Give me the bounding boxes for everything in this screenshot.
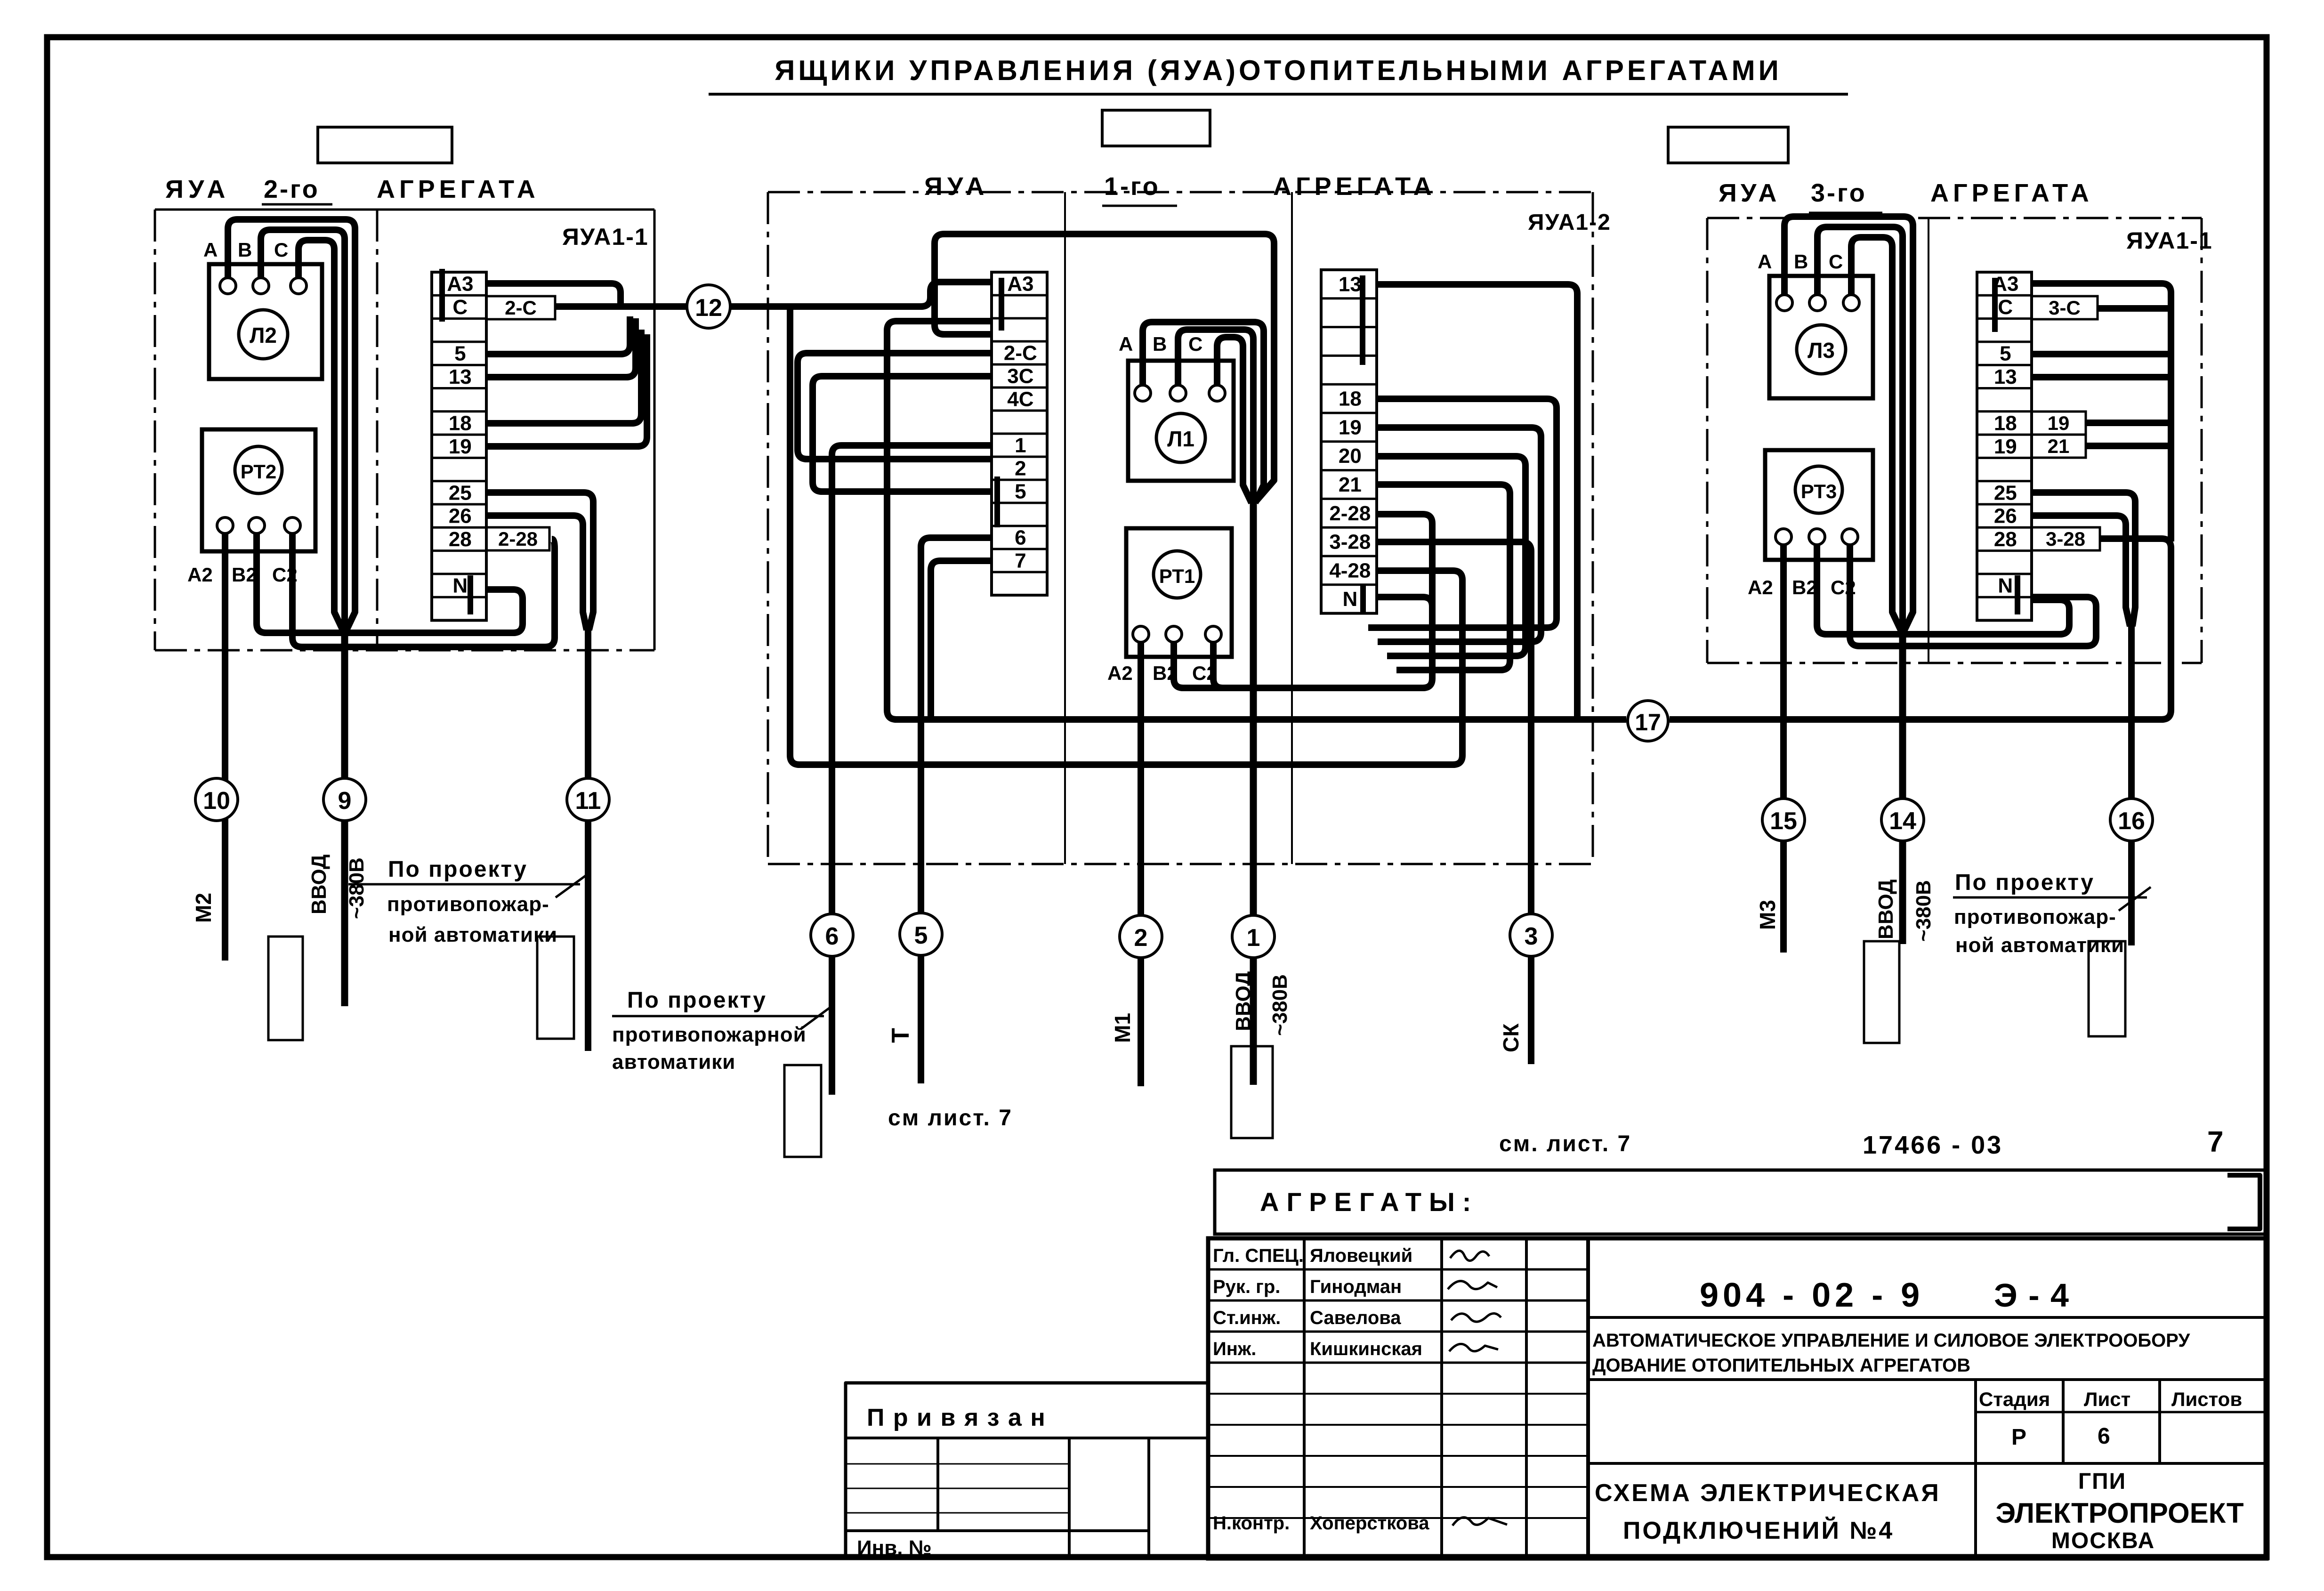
wire row 18 to riser bundle	[487, 330, 641, 423]
middle-right terminal strip YAUA1-2	[1321, 270, 1377, 614]
svg-text:А: А	[1119, 333, 1133, 355]
svg-text:17: 17	[1635, 709, 1661, 735]
svg-text:С: С	[1829, 250, 1843, 273]
svg-text:3-28: 3-28	[1329, 531, 1371, 554]
wire phase A of A1 to feeder cable 1	[1143, 322, 1264, 503]
cable 6 wire from row 1 down	[832, 445, 992, 1095]
svg-text:В: В	[1153, 333, 1167, 355]
svg-text:М3: М3	[1755, 900, 1780, 930]
right strip tick at A3	[1992, 278, 1998, 332]
cable marker circle 11	[567, 778, 609, 821]
svg-text:28: 28	[1994, 528, 2017, 551]
RT1 terminal A2	[1133, 626, 1149, 642]
cable marker circle 17	[1628, 701, 1668, 741]
wire RT1 B2 along bottom to riser of 2-28 row	[1174, 514, 1432, 688]
svg-text:В: В	[238, 239, 252, 261]
destination box for cable 14	[1864, 941, 1899, 1043]
cable marker circle 3	[1510, 914, 1552, 956]
svg-text:автоматики: автоматики	[612, 1050, 735, 1074]
left strip jumper tick at A3	[439, 269, 445, 322]
svg-text:ДОВАНИЕ ОТОПИТЕЛЬНЫХ АГРЕГАТО: ДОВАНИЕ ОТОПИТЕЛЬНЫХ АГРЕГАТОВ	[1592, 1355, 1970, 1376]
svg-text:ГПИ: ГПИ	[2078, 1469, 2126, 1494]
svg-text:13: 13	[1994, 365, 2017, 388]
svg-text:7: 7	[2207, 1126, 2223, 1158]
svg-text:Кишкинская: Кишкинская	[1310, 1339, 1422, 1359]
svg-text:противопожар-: противопожар-	[387, 893, 549, 916]
attached tag box 3-C	[2032, 296, 2098, 319]
L3 terminal B	[1809, 295, 1825, 311]
cable marker circle 9	[323, 778, 366, 821]
right terminal strip YAUA1-1 of unit 3	[1977, 272, 2032, 621]
cable marker circle 14	[1881, 799, 1924, 841]
attached tag box 19	[2032, 412, 2086, 435]
svg-text:11: 11	[575, 787, 601, 815]
AGREGATY box right bracket	[2227, 1175, 2260, 1229]
svg-text:10: 10	[203, 787, 230, 815]
svg-text:13: 13	[449, 365, 472, 388]
middle unit internal divider right	[1291, 192, 1293, 864]
svg-text:4С: 4С	[1007, 388, 1033, 411]
svg-text:ЯУА: ЯУА	[924, 172, 989, 201]
svg-text:5: 5	[914, 922, 928, 949]
svg-text:Р: Р	[2011, 1425, 2026, 1450]
svg-text:П р и в я з а н: П р и в я з а н	[867, 1404, 1046, 1431]
contactor L3 box	[1769, 276, 1873, 398]
svg-text:17466 - 03: 17466 - 03	[1863, 1131, 2003, 1159]
svg-text:2: 2	[1134, 924, 1148, 952]
svg-text:7: 7	[1015, 549, 1026, 573]
svg-text:АГРЕГАТА: АГРЕГАТА	[377, 175, 540, 203]
wire phase A from L2 up to feeder bundle	[228, 219, 355, 630]
svg-text:Хоперсткова: Хоперсткова	[1310, 1513, 1429, 1534]
wire row 13 of right strip to riser	[2033, 374, 2171, 380]
svg-text:СК: СК	[1499, 1023, 1523, 1052]
svg-text:ВВОД: ВВОД	[1874, 880, 1897, 939]
svg-text:3-28: 3-28	[2046, 528, 2085, 550]
svg-text:Инж.: Инж.	[1213, 1339, 1256, 1359]
svg-text:28: 28	[449, 528, 472, 551]
wire row 13 down to wire 17 junction	[1377, 284, 1577, 719]
svg-text:Ст.инж.: Ст.инж.	[1213, 1308, 1281, 1328]
wire RT1 C2 joining same bottom run	[1213, 642, 1243, 688]
svg-text:3-го: 3-го	[1811, 179, 1867, 207]
left header underline under 2-го	[262, 203, 332, 206]
cable 2 wire M1 from RT1 A2 down	[1138, 642, 1144, 1086]
middle-left strip tick at row 5	[994, 476, 1000, 527]
middle-right strip tick at 13	[1360, 275, 1365, 365]
wire row 26 to cable 11	[487, 516, 587, 630]
svg-text:АГРЕГАТА: АГРЕГАТА	[1930, 179, 2093, 207]
svg-text:ЯУА: ЯУА	[165, 175, 230, 203]
svg-text:ной автоматики: ной автоматики	[1955, 934, 2124, 957]
destination box for cable 1	[1231, 1046, 1273, 1138]
svg-text:ЯУА1-1: ЯУА1-1	[562, 224, 649, 250]
svg-text:С: С	[1998, 296, 2013, 319]
svg-text:3: 3	[1525, 923, 1538, 950]
svg-text:~380В: ~380В	[1912, 880, 1935, 942]
svg-text:ВВОД: ВВОД	[307, 855, 331, 914]
RT3 terminal C2	[1842, 529, 1858, 545]
svg-text:Лист: Лист	[2084, 1388, 2130, 1410]
svg-text:25: 25	[1994, 481, 2017, 504]
A1 terminal C	[1209, 385, 1225, 401]
wire row 26 of right strip to cable 16	[2033, 516, 2130, 626]
svg-text:1-го: 1-го	[1104, 172, 1160, 201]
wire row 5 of right strip to riser	[2033, 351, 2171, 357]
svg-text:16: 16	[2118, 808, 2145, 835]
middle-left terminal strip	[992, 272, 1047, 595]
svg-text:По проекту: По проекту	[388, 857, 528, 882]
RT1 designator circle	[1154, 551, 1201, 598]
wire row 7 short riser	[931, 561, 992, 719]
svg-text:А3: А3	[1007, 273, 1033, 296]
middle-right strip tick at N	[1360, 584, 1366, 612]
cable 15 wire M3 from RT3 A2 down	[1780, 545, 1787, 953]
svg-text:4-28: 4-28	[1329, 559, 1371, 582]
svg-text:2-28: 2-28	[498, 528, 538, 550]
RT1 terminal C2	[1205, 626, 1221, 642]
svg-text:19: 19	[1339, 416, 1362, 439]
svg-text:Л2: Л2	[250, 323, 277, 347]
empty cartouche rectangle above middle header	[1102, 110, 1210, 146]
svg-text:противопожар-: противопожар-	[1954, 905, 2116, 929]
destination box for cable 11	[537, 937, 574, 1039]
svg-text:ЯУА1-2: ЯУА1-2	[1528, 210, 1611, 235]
A1 designator circle	[1156, 413, 1205, 462]
left terminal strip YAUA1-1	[432, 272, 486, 621]
svg-text:РТ1: РТ1	[1159, 565, 1195, 587]
svg-text:26: 26	[449, 505, 472, 528]
wire 3-C tag to main riser	[2098, 305, 2171, 312]
middle unit dash-dot enclosure YAUA 1-go agregata	[768, 192, 1593, 864]
wire A3 row of right strip to main riser	[2033, 283, 2171, 307]
svg-text:МОСКВА: МОСКВА	[2051, 1528, 2155, 1553]
wire row 20 J-path under strip	[1377, 456, 1525, 656]
svg-text:см. лист. 7: см. лист. 7	[1499, 1131, 1631, 1156]
line under project number	[1588, 1316, 2267, 1319]
loop wire 3C row to row 5 of middle strip	[813, 376, 992, 492]
cable marker circle 15	[1762, 799, 1805, 841]
cable 3 continuation down	[1528, 923, 1534, 1064]
cable 5 wire from row 6 down	[921, 538, 992, 1083]
thermal relay RT2 box	[202, 429, 315, 551]
wire 19 tag to riser	[2086, 420, 2171, 426]
L3 designator circle	[1797, 325, 1846, 374]
svg-text:Рук. гр.: Рук. гр.	[1213, 1276, 1280, 1297]
svg-text:ЯУА: ЯУА	[1719, 179, 1780, 207]
cable marker circle 5	[900, 913, 942, 955]
stage sheet cells verticals	[1974, 1380, 1977, 1559]
svg-text:см лист. 7: см лист. 7	[888, 1106, 1013, 1131]
feeder cable 14 continuation down	[1899, 626, 1906, 944]
svg-text:СХЕМА ЭЛЕКТРИЧЕСКАЯ: СХЕМА ЭЛЕКТРИЧЕСКАЯ	[1595, 1479, 1941, 1507]
svg-text:Э - 4: Э - 4	[1994, 1277, 2070, 1314]
attached tag box 2-C	[486, 296, 555, 319]
wire phase C of L3 to feeder cable 14	[1851, 237, 1901, 630]
cable marker circle 12	[687, 285, 730, 328]
wire phase A of L3 to feeder cable 14	[1784, 217, 1913, 630]
svg-text:2-28: 2-28	[1329, 502, 1371, 525]
line above schema name cell	[1588, 1462, 2267, 1465]
privyazan block outline	[846, 1383, 1208, 1559]
svg-text:18: 18	[1339, 388, 1362, 411]
A1 terminal B	[1170, 385, 1186, 401]
wire phase B of L3 to feeder cable 14	[1817, 227, 1903, 663]
svg-text:А3: А3	[447, 273, 473, 296]
svg-text:Листов: Листов	[2171, 1388, 2242, 1410]
middle header underline under 1-го	[1102, 205, 1177, 207]
svg-text:В2: В2	[1792, 576, 1817, 598]
svg-text:15: 15	[1770, 808, 1797, 835]
attached tag box 2-28	[486, 527, 549, 550]
svg-text:3С: 3С	[1007, 365, 1033, 388]
svg-text:Гл. СПЕЦ.: Гл. СПЕЦ.	[1213, 1245, 1304, 1266]
wire row 13 to riser bundle	[487, 318, 636, 377]
svg-text:1: 1	[1015, 434, 1026, 457]
wire row 18 J-path under strip	[1368, 399, 1557, 628]
left unit internal divider	[376, 210, 379, 650]
left unit dash-dot enclosure YAUA 2-go agregata	[155, 210, 654, 650]
wire row 19 J-path under strip	[1377, 428, 1541, 642]
right strip tick at N	[2015, 575, 2020, 614]
loop wire 2-C row to row 2 of middle strip	[798, 353, 992, 459]
L2 terminal C	[290, 278, 307, 294]
RT1 terminal B2	[1166, 626, 1182, 642]
svg-text:1: 1	[1247, 924, 1260, 952]
wire RT3 B2 to inner N loop of right strip	[1817, 545, 2069, 634]
L2 terminal B	[253, 278, 269, 294]
svg-text:Стадия: Стадия	[1979, 1388, 2050, 1410]
svg-text:25: 25	[449, 481, 472, 504]
cable marker circle 1	[1232, 915, 1275, 958]
svg-text:9: 9	[338, 787, 352, 815]
right unit internal divider	[1928, 218, 1929, 663]
L2 terminal A	[220, 278, 236, 294]
svg-text:19: 19	[1994, 435, 2017, 458]
svg-text:А2: А2	[1748, 576, 1773, 598]
svg-text:Инв. №: Инв. №	[857, 1536, 932, 1559]
svg-text:С: С	[452, 296, 468, 319]
svg-text:А: А	[203, 239, 218, 261]
main title underline	[709, 93, 1848, 96]
thermal relay RT1 box	[1126, 528, 1232, 657]
destination box for cable 9	[268, 937, 303, 1040]
svg-text:5: 5	[1015, 480, 1026, 503]
wire from A3 row down to node 12 line	[487, 283, 621, 307]
svg-text:РТ2: РТ2	[241, 460, 276, 483]
svg-text:18: 18	[449, 412, 472, 435]
svg-text:ЯЩИКИ УПРАВЛЕНИЯ (ЯУА)ОТОП: ЯЩИКИ УПРАВЛЕНИЯ (ЯУА)ОТОПИТЕЛЬНЫМИ АГРЕ…	[775, 55, 1782, 86]
RT2 terminal A2	[217, 517, 233, 533]
wire RT3 C2 to outer N loop of right strip	[1850, 545, 2096, 646]
svg-text:N: N	[1342, 588, 1357, 611]
svg-text:19: 19	[2048, 412, 2070, 434]
svg-text:ВВОД: ВВОД	[1232, 971, 1255, 1031]
wire phase C from L2 up to feeder bundle	[299, 240, 343, 630]
svg-text:А2: А2	[187, 564, 213, 586]
RT3 terminal B2	[1809, 529, 1825, 545]
svg-text:Яловецкий: Яловецкий	[1310, 1245, 1412, 1266]
A1 terminal A	[1135, 385, 1151, 401]
svg-text:РТ3: РТ3	[1801, 480, 1837, 502]
attached tag box 21	[2032, 435, 2086, 458]
cable 10 wire M2 from RT2 A2 down	[222, 533, 228, 961]
L3 terminal A	[1776, 295, 1792, 311]
svg-text:N: N	[452, 574, 468, 598]
svg-text:3-С: 3-С	[2049, 297, 2081, 319]
wire 12 branch descending and across to 4-28 row	[790, 307, 1462, 765]
bridge wire from strip over A1 down right side	[935, 234, 1274, 501]
feeder cable 1 continuation down	[1250, 500, 1257, 1085]
wire RT2 B2 to terminal N loop	[257, 533, 523, 633]
svg-text:~380В: ~380В	[345, 857, 368, 919]
svg-text:N: N	[1998, 574, 2013, 598]
empty cartouche rectangle above left header	[318, 127, 452, 163]
destination box for cable 16	[2089, 941, 2125, 1036]
svg-text:2-го: 2-го	[264, 175, 320, 203]
privyazan table lines	[846, 1437, 1208, 1439]
line under description	[1588, 1378, 2267, 1381]
wire 12 continuation to middle strip A3	[730, 282, 992, 307]
RT3 terminal A2	[1775, 529, 1791, 545]
wire row 21 J-path under strip	[1377, 485, 1510, 670]
svg-text:Н.контр.: Н.контр.	[1213, 1513, 1290, 1534]
wire 17 start from middle-left strip row	[887, 321, 1626, 719]
staff row lines	[1208, 1268, 1588, 1271]
svg-text:18: 18	[1994, 412, 2017, 435]
svg-text:2-С: 2-С	[505, 297, 537, 319]
svg-text:5: 5	[2000, 342, 2011, 365]
middle-left strip tick at A3	[999, 278, 1004, 331]
svg-text:М1: М1	[1110, 1013, 1135, 1043]
svg-text:ЭЛЕКТРОПРОЕКТ: ЭЛЕКТРОПРОЕКТ	[1996, 1497, 2244, 1529]
right header underline under 3-го	[1809, 212, 1882, 214]
line under stage header	[1976, 1411, 2267, 1413]
wire row 19 to riser bundle	[487, 334, 647, 446]
destination box for cable 6	[784, 1065, 821, 1157]
wire phase B of A1 to feeder cable 1	[1178, 330, 1253, 504]
branch from riser to N row	[1377, 597, 1432, 606]
cable marker circle 10	[195, 778, 238, 821]
svg-text:ной автоматики: ной автоматики	[388, 923, 557, 946]
svg-text:20: 20	[1339, 444, 1362, 468]
contactor L2 box	[209, 264, 322, 379]
svg-text:В2: В2	[232, 564, 257, 586]
svg-text:ПОДКЛЮЧЕНИЙ №4: ПОДКЛЮЧЕНИЙ №4	[1623, 1517, 1894, 1544]
svg-text:С: С	[274, 239, 288, 261]
RT2 terminal C2	[284, 517, 300, 533]
main title block outer box	[1208, 1238, 2267, 1559]
wire row 25 to cable 11	[487, 493, 593, 630]
wire 21 tag to riser	[2086, 443, 2171, 449]
svg-text:19: 19	[449, 435, 472, 458]
svg-text:6: 6	[825, 923, 839, 950]
wire 17 continuation to 3-28 riser of right unit	[1670, 539, 2171, 719]
svg-text:26: 26	[1994, 505, 2017, 528]
svg-text:Савелова: Савелова	[1310, 1308, 1401, 1328]
cable 16 continuation down	[2128, 623, 2135, 945]
main right riser down to wire 17 corner	[2168, 307, 2174, 541]
left strip jumper tick at N	[468, 575, 473, 614]
svg-text:14: 14	[1889, 808, 1916, 835]
svg-text:21: 21	[2048, 435, 2070, 457]
AGREGATY header box	[1215, 1170, 2267, 1234]
svg-text:6: 6	[1015, 526, 1026, 549]
svg-text:Л1: Л1	[1167, 427, 1194, 451]
svg-text:904 - 02 - 9: 904 - 02 - 9	[1700, 1276, 1924, 1314]
wire row 5 to riser bundle	[487, 316, 630, 354]
feeder cable 9 continuation to bottom	[341, 626, 348, 1006]
svg-text:В: В	[1794, 250, 1808, 273]
empty cartouche rectangle above right header	[1668, 127, 1788, 163]
svg-text:АГРЕГАТЫ:: АГРЕГАТЫ:	[1260, 1187, 1478, 1217]
svg-text:21: 21	[1339, 473, 1362, 496]
wire RT2 C2 to 2-28 loop	[292, 533, 555, 647]
svg-text:противопожарной: противопожарной	[612, 1023, 807, 1046]
motor starter A1 box	[1128, 361, 1234, 481]
right unit dash-dot enclosure YAUA 3-go agregata	[1707, 218, 2202, 663]
L2 designator circle	[239, 310, 288, 359]
cable marker circle 2	[1120, 915, 1162, 958]
svg-text:А2: А2	[1107, 662, 1133, 684]
svg-text:2-С: 2-С	[1004, 342, 1037, 365]
svg-text:А: А	[1758, 250, 1772, 273]
svg-text:Т: Т	[887, 1028, 914, 1043]
svg-text:2: 2	[1015, 457, 1026, 480]
wire node 12 from 2-C tag through middle unit	[555, 303, 687, 310]
wire phase B from L2 up to feeder bundle	[261, 230, 345, 629]
cable marker circle 6	[811, 914, 853, 956]
L3 terminal C	[1843, 295, 1859, 311]
wire 3-28 row to cable 3	[1377, 542, 1531, 926]
svg-text:АГРЕГАТА: АГРЕГАТА	[1273, 172, 1436, 201]
signature squiggles	[1450, 1251, 1489, 1260]
svg-text:Гинодман: Гинодман	[1310, 1276, 1402, 1297]
RT2 terminal B2	[249, 517, 265, 533]
svg-text:С: С	[1188, 333, 1202, 355]
svg-text:АВТОМАТИЧЕСКОЕ УПРАВЛЕНИЕ И: АВТОМАТИЧЕСКОЕ УПРАВЛЕНИЕ И СИЛОВОЕ ЭЛЕК…	[1592, 1330, 2190, 1351]
middle unit internal divider left	[1064, 192, 1066, 864]
wire row 25 of right strip to cable 16	[2033, 493, 2135, 626]
attached tag box 3-28	[2032, 527, 2100, 550]
svg-text:5: 5	[454, 342, 466, 365]
RT2 designator circle	[235, 446, 282, 493]
svg-text:6: 6	[2098, 1424, 2110, 1449]
svg-text:По проекту: По проекту	[1955, 870, 2095, 895]
staff column vertical lines	[1303, 1238, 1306, 1559]
cable marker circle 16	[2110, 799, 2153, 841]
svg-text:12: 12	[695, 294, 722, 322]
svg-text:ЯУА1-1: ЯУА1-1	[2126, 227, 2213, 254]
RT3 designator circle	[1795, 466, 1842, 513]
svg-text:13: 13	[1339, 273, 1362, 296]
thermal relay RT3 box	[1765, 450, 1873, 560]
svg-text:Л3: Л3	[1808, 338, 1835, 363]
svg-text:По проекту: По проекту	[627, 988, 767, 1013]
svg-text:М2: М2	[191, 893, 216, 923]
svg-text:~380В: ~380В	[1268, 974, 1291, 1036]
cable 11 wire down	[585, 627, 591, 1051]
wire phase C of A1 to feeder cable 1	[1217, 337, 1251, 503]
